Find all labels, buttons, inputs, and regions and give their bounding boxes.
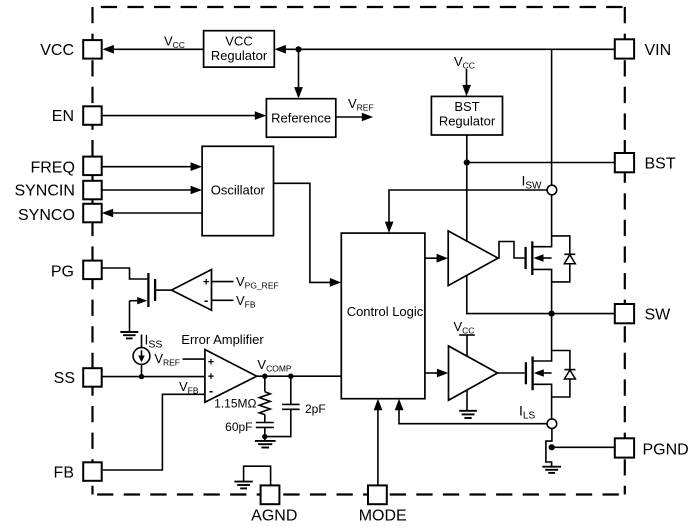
node PGND junction [549, 444, 555, 450]
source terminal [534, 384, 552, 419]
wire SW node to SW pin [552, 313, 616, 315]
block Oscillator [202, 146, 273, 235]
svg-text:Reference: Reference [271, 111, 331, 126]
wire Oscillator to SYNCO pin [102, 209, 202, 218]
node VCOMP junction at resistor [262, 374, 267, 379]
ground analog ground symbol [234, 482, 252, 489]
wire junction down to Reference block [294, 49, 303, 98]
op-amp high-side gate driver [448, 231, 498, 286]
svg-text:SW: SW [645, 306, 672, 323]
svg-text:MODE: MODE [359, 507, 407, 524]
power rail stub for low-side driver [459, 335, 475, 357]
transistor Q3 power-good FET [130, 273, 156, 332]
wire SYNCIN pin to Oscillator [101, 186, 202, 195]
wire VREF stub into error amp [183, 358, 205, 360]
pin SYNCIN [14, 181, 101, 200]
resistor R1 1.15Mohm compensation [259, 376, 270, 422]
body arrow / source terminal [130, 300, 140, 302]
op-amp U3 error amplifier [205, 350, 257, 403]
channel bar [531, 241, 533, 275]
wire ILS sensor down with shunt jog to power ground [546, 429, 552, 467]
block VCC Regulator [204, 31, 275, 67]
wire VCC Regulator output to VCC pin [103, 45, 204, 54]
pin SYNCO [18, 204, 102, 224]
pin BST [615, 153, 676, 172]
svg-text:FB: FB [54, 464, 74, 481]
pin SW [615, 304, 671, 323]
svg-text:2pF: 2pF [305, 402, 326, 416]
svg-text:PGND: PGND [643, 441, 689, 458]
svg-text:-: - [204, 293, 208, 308]
pin FB [54, 462, 102, 481]
pin PG [51, 261, 102, 281]
drain terminal [533, 236, 551, 247]
node VCOMP junction at 2pF [288, 374, 293, 379]
source drop to ground [129, 301, 131, 332]
svg-text:+: + [208, 371, 214, 383]
op-amp low-side gate driver [449, 346, 498, 400]
wire Reference VREF output arrow [336, 113, 373, 122]
svg-text:1.15MΩ: 1.15MΩ [214, 397, 256, 411]
wire low-side driver output to gate [497, 372, 525, 374]
wire comparator plus input stub [212, 281, 234, 283]
node SW junction [549, 311, 555, 317]
wire Control Logic to low-side driver input [425, 369, 448, 378]
block Reference [266, 99, 335, 138]
current sensor ISW circle [547, 185, 557, 195]
svg-text:-: - [209, 383, 213, 398]
wire BST Regulator to BST pin [467, 135, 615, 163]
svg-text:Error Amplifier: Error Amplifier [181, 332, 264, 347]
wire VIN rail down to ISW sensor [551, 49, 553, 185]
svg-text:SYNCIN: SYNCIN [14, 183, 74, 200]
transistor Q2 low-side power MOSFET [526, 351, 552, 420]
capacitor C1 60pF [256, 423, 274, 437]
diode D1 high-side body diode [552, 236, 576, 282]
wire FREQ pin to Oscillator [101, 162, 202, 171]
svg-text:Control Logic: Control Logic [347, 304, 424, 319]
ground power ground symbol [542, 467, 561, 473]
wire MODE pin to Control Logic [374, 399, 383, 485]
wire PGND node to PGND pin [552, 446, 616, 448]
pin FREQ [30, 157, 101, 177]
wire SW node down to low-side FET drain [551, 314, 553, 351]
wire ILS sense to Control Logic bottom [395, 399, 547, 424]
wire Control Logic to high-side driver input [425, 254, 448, 263]
node BST junction [464, 159, 470, 165]
op-amp U2 power-good comparator [172, 270, 212, 311]
wire EN pin to Reference input [102, 111, 266, 120]
wire PG FET gate to comparator output [156, 289, 172, 291]
wire low-side driver ground stub [466, 391, 468, 411]
svg-text:+: + [208, 356, 214, 368]
node junction on VIN wire feeding Reference [295, 46, 301, 52]
block Control Logic (U-main) [341, 233, 425, 399]
body arrow [541, 257, 552, 259]
ground low-side driver [459, 411, 477, 418]
pin VIN [615, 39, 671, 59]
svg-text:Regulator: Regulator [211, 48, 268, 63]
svg-text:AGND: AGND [251, 507, 297, 524]
svg-text:EN: EN [52, 108, 74, 125]
drain terminal [534, 351, 552, 362]
svg-text:VCC: VCC [40, 42, 74, 59]
svg-text:PG: PG [51, 264, 74, 281]
wire FB riser to error amp minus input [103, 394, 205, 470]
current source ISS soft-start [133, 335, 150, 377]
wire high-side driver output step to gate [498, 242, 525, 259]
wire AGND pin loop to analog ground [244, 466, 271, 486]
svg-text:Oscillator: Oscillator [211, 182, 266, 197]
IC boundary dashed border [93, 7, 625, 495]
wire VIN to VCC Regulator input [275, 45, 615, 54]
wire SS pin to error amplifier input [103, 376, 205, 378]
wire PG pin to PG FET drain [102, 268, 148, 279]
block BST Regulator [431, 96, 502, 135]
capacitor C2 2pF [265, 376, 300, 436]
svg-text:SS: SS [54, 370, 75, 387]
pin VCC [40, 40, 101, 59]
gate bar [524, 247, 526, 269]
pin SS [54, 368, 102, 387]
gate bar [154, 279, 156, 301]
wire junction to ground [264, 437, 266, 441]
current sensor ILS circle [547, 419, 557, 429]
pin EN [52, 106, 102, 125]
wire error amp output VCOMP to Control Logic [257, 375, 342, 377]
wire Oscillator output to Control Logic [274, 183, 342, 286]
svg-text:BST: BST [454, 99, 479, 114]
ground compensation network [255, 441, 276, 448]
wire BST node down to high-side driver supply [466, 163, 468, 242]
svg-text:SYNCO: SYNCO [18, 207, 75, 224]
transistor Q1 high-side power MOSFET [526, 236, 552, 314]
channel bar [531, 357, 533, 391]
diode D2 low-side body diode [552, 351, 576, 398]
svg-text:BST: BST [645, 155, 676, 172]
gate bar [525, 362, 527, 384]
node SS junction [139, 374, 144, 379]
svg-text:FREQ: FREQ [30, 159, 74, 176]
node compensation bottom junction [262, 434, 267, 439]
wire high-side driver reference to SW node [467, 275, 552, 313]
wire ISW sensor to high-side FET drain [551, 195, 553, 236]
wire comparator minus input stub [212, 299, 234, 301]
pin AGND [251, 485, 297, 524]
pin MODE [359, 485, 407, 524]
wire ISW sense to Control Logic top [385, 190, 547, 233]
svg-text:Regulator: Regulator [439, 114, 496, 129]
svg-text:60pF: 60pF [225, 420, 252, 434]
svg-text:+: + [203, 276, 209, 288]
svg-text:VIN: VIN [645, 42, 672, 59]
channel bar [147, 273, 149, 307]
wire VCC into BST Regulator [462, 69, 471, 96]
source terminal [533, 269, 551, 313]
svg-text:VCC: VCC [225, 34, 252, 49]
ground PG FET source [120, 332, 138, 338]
body arrow [541, 372, 551, 374]
pin PGND [615, 438, 689, 458]
